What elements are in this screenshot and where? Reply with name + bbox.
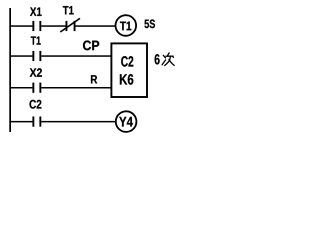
wire: rung 4, rail to contact C2 [10,121,32,123]
value label 6 [155,54,160,64]
CJK character ci (times) drawn as strokes [162,53,174,66]
wire: contact T1 to coil T1 [76,25,116,27]
text C2 in box [121,56,133,66]
wire: contact X2 to counter R input [41,87,111,89]
text T1 inside coil [120,22,131,31]
value label 5S [145,20,155,29]
contact X2 (normally open) [32,83,41,93]
contact X1 (normally open) [32,21,41,31]
contact C2 (normally open) [32,117,41,127]
pin label R [91,75,97,83]
label X2 [30,68,42,76]
contact T1 (normally closed) [60,18,80,32]
wire: contact X1 to contact T1 [41,25,65,27]
wire: rung 3, rail to contact X2 [10,87,32,89]
coil Y4 (output) [116,111,137,132]
wire: contact T1 to counter CP input [41,55,111,57]
pin label CP [83,41,99,51]
label X1 [30,7,42,15]
counter box C2/K6 [111,43,147,97]
wire: contact C2 to coil Y4 [41,121,115,123]
label T1 above NC contact [63,6,74,14]
wire: rung 1, rail to contact X1 [10,25,32,27]
left power rail [9,8,11,132]
contact T1 (normally open) [32,51,41,61]
coil T1 (timer) [116,15,137,36]
text K6 in box [120,74,133,84]
label T1 [31,36,41,44]
text Y4 inside coil [119,117,133,127]
label C2 [29,100,41,109]
wire: rung 2, rail to contact T1 [10,55,32,57]
